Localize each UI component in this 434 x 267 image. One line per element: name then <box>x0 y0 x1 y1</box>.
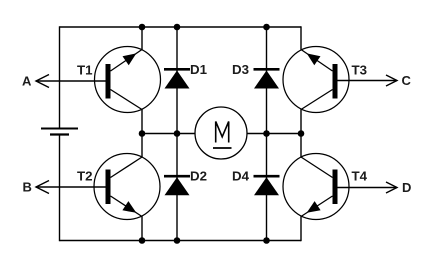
wire top rail <box>60 26 302 28</box>
battery BT1 <box>41 129 78 135</box>
wire motor to middle right <box>247 133 302 135</box>
junction middle at T1 T2 <box>139 130 146 137</box>
svg-text:D2: D2 <box>190 169 207 184</box>
diode D1 <box>164 69 190 88</box>
junction bottom rail at D4 <box>263 237 270 244</box>
junction top rail at T1 collector <box>139 24 146 31</box>
junction top rail at D1 <box>174 24 181 31</box>
node C arrow <box>386 75 397 86</box>
junction middle at T3 T4 <box>298 130 305 137</box>
transistor T4 <box>283 154 349 220</box>
wire right column upper <box>300 26 302 49</box>
node A arrow <box>36 75 49 88</box>
wire node A to T1 base <box>36 80 106 82</box>
wire D1 D2 column <box>176 27 178 241</box>
svg-text:T4: T4 <box>352 169 368 184</box>
wire T1 collector to top rail <box>141 27 143 50</box>
diode D2 <box>164 176 190 195</box>
svg-text:T3: T3 <box>352 62 368 77</box>
junction bottom rail at D2 <box>174 237 181 244</box>
svg-text:T2: T2 <box>77 169 93 184</box>
wire T4 base to node D <box>338 187 398 189</box>
svg-text:C: C <box>402 73 412 88</box>
node D arrow <box>386 182 397 193</box>
svg-text:D: D <box>402 180 411 195</box>
wire D3 D4 column <box>266 27 268 241</box>
diode D3 <box>254 69 280 88</box>
wire middle left to motor <box>142 133 196 135</box>
wire T2 emitter to bottom rail <box>141 217 143 241</box>
svg-text:D1: D1 <box>190 62 208 77</box>
junction middle at D3 D4 <box>263 130 270 137</box>
junction middle at D1 D2 <box>174 130 181 137</box>
wire left rail upper <box>59 26 61 128</box>
transistor T2 <box>94 154 160 220</box>
motor M1 <box>195 107 247 159</box>
transistor T3 <box>283 47 349 113</box>
svg-text:B: B <box>23 180 32 195</box>
node B arrow <box>36 181 49 194</box>
wire right column lower <box>300 217 302 242</box>
wire T1 emitter to T2 collector <box>141 110 143 158</box>
svg-text:D4: D4 <box>232 169 250 184</box>
svg-text:T1: T1 <box>77 62 93 77</box>
svg-text:D3: D3 <box>232 62 249 77</box>
wire right column middle <box>300 110 302 158</box>
transistor T1 <box>95 47 161 113</box>
svg-text:A: A <box>22 74 32 89</box>
wire left rail lower <box>59 135 61 242</box>
junction top rail at D3 <box>263 24 270 31</box>
diode D4 <box>254 176 280 195</box>
wire bottom rail <box>60 240 302 242</box>
junction bottom rail at T2 emitter <box>139 237 146 244</box>
wire T3 base to node C <box>338 80 398 82</box>
wire node B to T2 base <box>36 186 106 188</box>
